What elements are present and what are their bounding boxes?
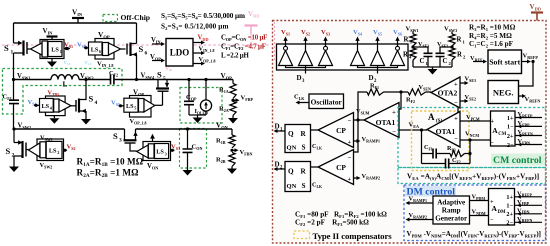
node VOP_1.8 output of LDO <box>193 63 203 65</box>
inverter driver S6 <box>391 51 405 66</box>
wire VSW2 rail <box>14 128 125 130</box>
svg-text:Oscillator: Oscillator <box>311 98 343 107</box>
svg-text:1: 1 <box>11 50 14 56</box>
level shifter LS2 cluster <box>37 139 64 161</box>
wire RF1 to RF2 <box>384 91 409 93</box>
transistor S4 <box>74 105 76 107</box>
svg-text:OTA2: OTA2 <box>438 89 458 98</box>
wire VSW1 rail <box>14 79 52 81</box>
wire driver group1 connector <box>286 66 326 68</box>
svg-text:S: S <box>302 144 306 152</box>
svg-text:OTA1: OTA1 <box>436 127 456 136</box>
node VRAMP1 <box>354 140 360 142</box>
inverter driver S1 <box>279 51 293 66</box>
svg-text:LS: LS <box>49 147 57 154</box>
svg-text:1−: 1− <box>507 124 514 131</box>
svg-text:Soft start: Soft start <box>489 58 520 67</box>
wire OTA1 minus to VEA <box>399 129 427 131</box>
wire VSW4 rail <box>114 79 233 81</box>
resistor R1B <box>231 129 233 135</box>
svg-text:OTA1: OTA1 <box>376 118 396 127</box>
svg-text:−: − <box>490 141 494 147</box>
CM control dashed box <box>398 108 546 168</box>
resistor R1A <box>232 80 234 84</box>
svg-text:NEG.: NEG. <box>493 88 514 98</box>
svg-text:+: + <box>454 81 458 88</box>
wire junction to OTA1 plus <box>399 92 401 109</box>
svg-text:6: 6 <box>145 51 148 57</box>
block ADM <box>489 189 515 226</box>
svg-text:R: R <box>301 130 307 138</box>
svg-text:4: 4 <box>95 100 98 106</box>
svg-text:S: S <box>139 44 144 54</box>
capacitor C2 <box>440 47 452 53</box>
svg-text:−: − <box>347 118 351 125</box>
svg-text:2+: 2+ <box>506 211 513 218</box>
wire VSUM feedback up <box>358 92 367 120</box>
flip-flop DFF2 <box>285 162 311 192</box>
block NEG <box>488 81 519 104</box>
inverter driver S2 <box>299 51 313 66</box>
node VRAMP2 output <box>407 219 433 221</box>
ground of COP <box>189 114 206 116</box>
node VFBP <box>231 99 234 102</box>
ground of sense network <box>428 69 438 75</box>
resistor R3 <box>410 34 416 46</box>
wire VEA down <box>421 130 423 164</box>
capacitor CF1 <box>13 80 15 101</box>
svg-text:LS: LS <box>156 149 164 156</box>
svg-text:Generator: Generator <box>435 215 468 223</box>
svg-text:CP: CP <box>336 126 346 135</box>
svg-text:CF2 =2 pF RF3=500 kΩ: CF2 =2 pF RF3=500 kΩ <box>295 219 369 227</box>
svg-text:−: − <box>347 155 351 162</box>
svg-text:6: 6 <box>99 49 101 54</box>
ground of LS1 <box>51 59 53 62</box>
capacitor CF2 <box>111 75 114 85</box>
svg-text:CM control: CM control <box>493 155 542 166</box>
svg-text:Adaptive: Adaptive <box>437 199 465 207</box>
node VRAMP2 <box>354 177 360 179</box>
node VSW2 <box>12 127 15 130</box>
svg-text:D: D <box>369 74 374 82</box>
svg-text:LS: LS <box>126 103 134 110</box>
wire RF2 to OTA2 <box>426 91 432 93</box>
transistor S1 <box>13 23 15 43</box>
svg-text:−: − <box>392 129 396 136</box>
capacitor COP <box>187 78 190 81</box>
svg-text:S: S <box>4 43 9 53</box>
svg-text:S: S <box>6 146 11 156</box>
svg-text:Q: Q <box>288 130 294 138</box>
svg-text:LS: LS <box>42 103 50 110</box>
resistor RF3 compensator <box>436 153 450 155</box>
node VFBN <box>230 149 233 152</box>
svg-text:A: A <box>428 112 435 122</box>
transistor S6 <box>129 43 131 57</box>
svg-text:2−: 2− <box>507 142 514 149</box>
inverter driver S4 <box>351 51 365 66</box>
node VSE2 input of OTA2 <box>460 100 467 102</box>
wire VON rail <box>136 128 233 130</box>
capacitor CON <box>186 127 189 130</box>
wire VSW3 rail <box>79 79 111 81</box>
block Adaptive Ramp Generator <box>433 196 470 224</box>
inverter driver S3 <box>319 51 333 66</box>
svg-text:S: S <box>113 131 118 141</box>
wire VSUM down to CP2 <box>354 120 359 152</box>
svg-text:3: 3 <box>119 138 122 144</box>
svg-text:R3=R1 =10 MΩ: R3=R1 =10 MΩ <box>469 24 516 32</box>
ground of LS4 <box>53 116 55 119</box>
supply arrow of LS3 <box>152 137 154 142</box>
block Oscillator <box>309 94 344 109</box>
level shifter LS4 cluster <box>46 96 66 116</box>
svg-text:+: + <box>454 116 458 123</box>
CM equation dashed box <box>398 168 546 184</box>
svg-text:5: 5 <box>134 106 136 111</box>
resistor RF2 <box>408 89 426 95</box>
off-chip region outline (CON) <box>180 129 207 169</box>
wire VSUM to CP1 <box>354 119 359 121</box>
svg-text:+: + <box>490 200 494 206</box>
driver bar box <box>277 44 409 70</box>
resistor R2 <box>449 48 455 60</box>
svg-text:(S): (S) <box>436 119 442 124</box>
svg-text:C1=C2 =1.6 pF: C1=C2 =1.6 pF <box>469 40 514 48</box>
resistor RF1 <box>367 89 384 95</box>
ground of R2B <box>227 169 237 175</box>
node VREFP output <box>522 61 530 63</box>
capacitor C1 <box>413 47 428 53</box>
off-chip region outline (L, CF1, CF2) <box>3 69 123 115</box>
ground of CON <box>183 170 193 176</box>
svg-text:R: R <box>404 37 409 44</box>
node VSE2 <box>450 45 453 48</box>
svg-text:QN: QN <box>287 183 297 190</box>
flip-flop DFF1 <box>285 125 311 153</box>
svg-text:1: 1 <box>60 49 62 54</box>
svg-text:D: D <box>275 161 280 169</box>
level shifter LS3 cluster <box>143 142 171 161</box>
svg-text:LS: LS <box>91 46 99 53</box>
svg-text:D: D <box>297 74 302 82</box>
svg-text:S: S <box>89 94 94 104</box>
svg-text:2: 2 <box>57 150 59 155</box>
controller dashed border box <box>273 21 547 244</box>
op-amp OTA1 second <box>427 112 460 148</box>
svg-text:R: R <box>457 52 462 59</box>
svg-text:R: R <box>457 37 462 44</box>
svg-text:3: 3 <box>165 151 167 156</box>
wire soft start to NEG <box>519 62 534 87</box>
svg-text:Off-Chip: Off-Chip <box>121 13 151 22</box>
svg-text:1+: 1+ <box>506 194 513 201</box>
svg-text:C: C <box>443 58 448 65</box>
node VIN_1.8 output of LDO <box>193 52 203 54</box>
current source IOLED <box>204 78 207 81</box>
label DM control <box>405 186 456 197</box>
block ACM <box>491 111 516 146</box>
svg-text:2: 2 <box>12 153 15 159</box>
svg-text:−: − <box>454 136 458 143</box>
op-amp OTA2 <box>431 77 460 108</box>
svg-text:R: R <box>403 52 408 59</box>
transistor S3 <box>124 129 126 140</box>
svg-text:+: + <box>347 176 351 183</box>
transistor S5 <box>157 80 159 88</box>
svg-text:QN: QN <box>287 145 297 152</box>
capacitor CF2 compensator <box>422 163 446 165</box>
svg-text:S2=S3= 0.5/12,000 μm: S2=S3= 0.5/12,000 μm <box>161 23 229 31</box>
svg-text:L: L <box>63 80 68 89</box>
svg-text:+: + <box>490 119 494 125</box>
level shifter LS1 cluster <box>40 40 64 59</box>
svg-text:−: − <box>490 218 494 224</box>
comparator CP1 <box>318 113 354 148</box>
svg-text:CM: CM <box>498 132 506 137</box>
svg-text:Q: Q <box>288 168 294 176</box>
resistor R2A <box>230 102 236 116</box>
node D2 output <box>275 168 285 170</box>
node VPCM <box>460 120 491 122</box>
wire CP2 out <box>311 166 319 168</box>
svg-text:Type II compensators: Type II compensators <box>313 231 393 241</box>
inductor L <box>51 75 79 80</box>
DM control dashed box <box>404 185 546 241</box>
wire compensator to VNCM <box>469 140 471 164</box>
type II compensator yellow box <box>412 111 470 171</box>
ground of R2A <box>228 118 238 124</box>
svg-text:LDO: LDO <box>170 48 190 58</box>
wire pink dashed overlay on border <box>274 22 276 60</box>
svg-text:LS: LS <box>51 47 59 54</box>
svg-text:D: D <box>275 123 280 131</box>
comparator CP2 <box>318 150 354 185</box>
node VNCM <box>460 139 491 141</box>
capacitor CF1 compensator <box>422 153 434 155</box>
node VDD output of LDO <box>193 42 203 44</box>
wire sense ground rail <box>413 66 452 68</box>
node D1 output <box>275 130 285 132</box>
wire VIN rail <box>14 22 137 24</box>
resistor R1 <box>449 34 455 46</box>
svg-text:2+: 2+ <box>507 133 514 140</box>
wire driver group2 connector <box>358 66 398 68</box>
svg-text:1+: 1+ <box>507 115 514 122</box>
transistor S2 <box>13 129 15 143</box>
block Soft start <box>488 50 522 74</box>
node VSUM <box>356 118 359 121</box>
svg-text:VEA =A(S)ACM[(VREFN+VREFP)-(VF: VEA =A(S)ACM[(VREFN+VREFP)-(VFBN+VFBP)] <box>407 173 539 181</box>
wire pink VDD dashed distribution rail <box>2 44 270 46</box>
svg-text:C: C <box>420 58 425 65</box>
node VSW1 <box>12 78 15 81</box>
node VREFN output <box>519 95 525 97</box>
svg-text:R: R <box>301 168 307 176</box>
level shifter LS5 cluster <box>130 96 152 118</box>
svg-text:S1=S6=S5=S4= 0.5/30,000 μm: S1=S6=S5=S4= 0.5/30,000 μm <box>161 12 245 20</box>
legend Type II compensators <box>294 231 310 239</box>
regulator LDO block <box>166 39 193 67</box>
svg-text:S: S <box>157 70 162 80</box>
inverter driver S5 <box>371 51 385 66</box>
svg-text:1−: 1− <box>506 203 513 210</box>
node VRAMP1 output <box>407 202 433 204</box>
svg-text:2−: 2− <box>506 220 513 227</box>
wire CP1 out <box>311 129 319 131</box>
svg-text:Ramp: Ramp <box>442 207 461 215</box>
level shifter LS6 cluster <box>95 39 114 60</box>
svg-text:+: + <box>392 109 396 116</box>
label CM control <box>491 154 545 166</box>
resistor R2B <box>229 153 235 167</box>
svg-text:CP: CP <box>336 163 346 172</box>
node VSE3 <box>411 45 414 48</box>
op-amp OTA1 first <box>364 103 399 138</box>
wire OTA2 feedback down <box>457 108 459 121</box>
svg-text:+: + <box>347 139 351 146</box>
svg-text:L =2.2 μH: L =2.2 μH <box>221 53 250 60</box>
node VNDM <box>470 215 489 217</box>
legend Off-Chip <box>103 15 118 22</box>
svg-text:S: S <box>302 182 306 190</box>
node VPDM <box>470 200 489 202</box>
off-chip region outline (COP, IOLED) <box>180 88 222 124</box>
node VSE3 input of OTA2 <box>460 82 467 84</box>
resistor R4 <box>410 48 416 60</box>
svg-text:−: − <box>454 100 458 107</box>
svg-text:DM: DM <box>498 210 506 215</box>
node VS1 input <box>65 47 68 50</box>
svg-text:5: 5 <box>163 76 166 82</box>
